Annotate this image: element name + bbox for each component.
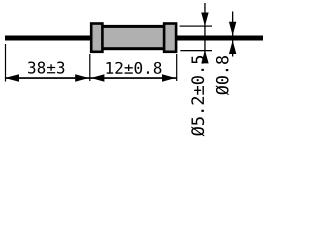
dimension text Ø5.2±0.5 (rotated) <box>191 56 205 136</box>
dimension text Ø0.8 (rotated) <box>216 56 229 95</box>
dimension text 12±0.8 <box>107 62 162 74</box>
dimension line Ø5.2 vertical <box>204 3 205 59</box>
lead wire <box>5 36 263 41</box>
dimension line 38±3 <box>5 77 90 79</box>
extension line body right <box>176 54 177 81</box>
resistor end cap left <box>91 24 102 52</box>
arrowhead 12 left <box>91 74 105 81</box>
resistor body (middle cylinder) <box>101 26 165 48</box>
arrowhead 12 right <box>162 74 176 81</box>
arrowhead Ø0.8 top (points down) <box>229 22 236 36</box>
dimension text 38±3 <box>28 62 64 74</box>
extension line body left <box>89 54 90 81</box>
dimension line 12±0.8 <box>90 77 177 79</box>
arrowhead 38 right <box>75 74 89 81</box>
arrowhead 38 left <box>5 74 19 81</box>
arrowhead Ø5.2 bottom (points up) <box>201 50 208 63</box>
resistor end cap right <box>164 24 176 52</box>
extension line body diameter top <box>180 26 212 27</box>
arrowhead Ø5.2 top (points down) <box>201 13 208 27</box>
extension line body diameter bottom <box>180 50 212 51</box>
dimension line Ø0.8 vertical <box>232 12 233 57</box>
extension line left (lead end) <box>5 44 6 82</box>
arrowhead Ø0.8 bottom (points up) <box>229 41 236 55</box>
